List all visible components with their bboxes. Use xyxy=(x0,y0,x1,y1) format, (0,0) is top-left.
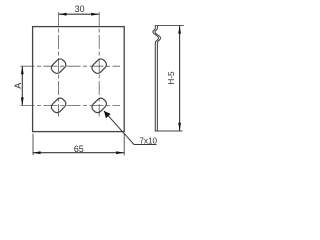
svg-text:65: 65 xyxy=(74,144,84,154)
svg-text:H-5: H-5 xyxy=(167,71,176,85)
svg-text:30: 30 xyxy=(75,4,85,14)
svg-text:7x10: 7x10 xyxy=(139,137,157,146)
svg-text:A: A xyxy=(13,83,23,89)
